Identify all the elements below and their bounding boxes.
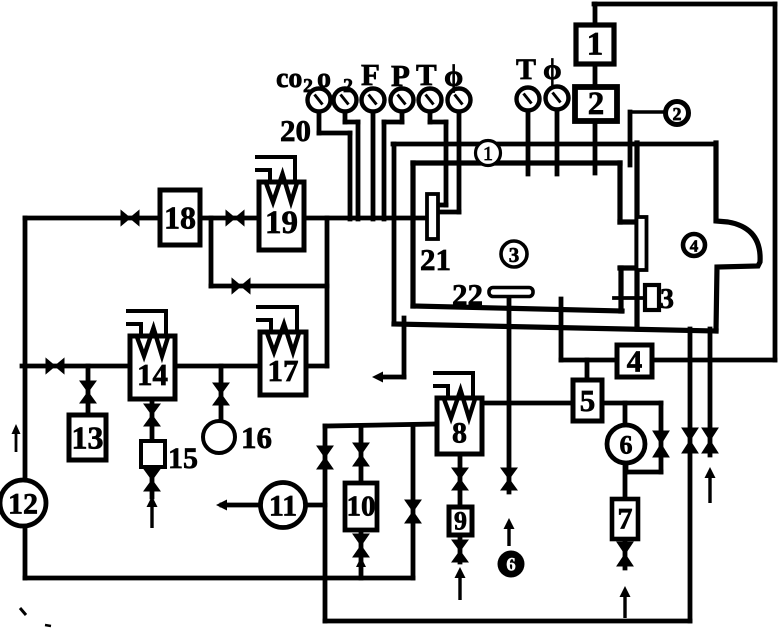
flow arrow up below valve x710 bbox=[705, 467, 716, 503]
wire circle 6 / box 7 string x625 bbox=[623, 403, 628, 568]
gauge phi chamber bbox=[546, 87, 569, 110]
svg-text:10: 10 bbox=[347, 491, 376, 523]
svg-text:14: 14 bbox=[137, 357, 168, 392]
door between chamber 3 and chamber 4 bbox=[637, 217, 647, 270]
valve on heater row left bbox=[46, 359, 64, 374]
wire gauge P drop bbox=[400, 111, 405, 122]
svg-text:ϕ: ϕ bbox=[444, 58, 463, 93]
box 9 bbox=[449, 507, 472, 536]
wire line-1 supply header y144 bbox=[393, 142, 716, 147]
wire box 5 to valve loop bbox=[602, 401, 661, 406]
chamber 3 right wall upper bbox=[617, 163, 622, 222]
svg-text:8: 8 bbox=[452, 417, 467, 450]
wire gauge F drop bbox=[371, 111, 376, 219]
wire box 8 to box 5 line y403 bbox=[482, 401, 573, 406]
wire gauge T drop to tube 21 bbox=[428, 111, 433, 122]
chamber 3 bottom wall bbox=[413, 306, 622, 311]
gauge T main bbox=[419, 89, 442, 112]
svg-text:16: 16 bbox=[241, 420, 272, 455]
gauge T chamber bbox=[517, 88, 540, 111]
pump circle 12 bbox=[0, 480, 46, 526]
flow arrow up on item 22 inlet bbox=[504, 518, 515, 546]
wire gauge CO2 drop bbox=[317, 111, 322, 133]
wire sample line from chamber 3 down to box 4 loop bbox=[559, 299, 564, 360]
wire port stub to box 3 bbox=[614, 296, 645, 300]
svg-text:21: 21 bbox=[420, 242, 451, 277]
svg-text:2: 2 bbox=[588, 86, 605, 122]
wire outer loop right riser x775 bbox=[773, 4, 778, 360]
wire gauge phi drop to tube 21 bbox=[457, 111, 462, 212]
svg-text:3: 3 bbox=[660, 284, 674, 315]
svg-text:ϕ: ϕ bbox=[543, 53, 562, 86]
valve above box 10 bbox=[353, 443, 369, 466]
wire outer enclosure bottom y324-331 bbox=[394, 324, 716, 331]
svg-text:F: F bbox=[361, 57, 380, 92]
box 5 bbox=[573, 380, 602, 421]
wire box 14 drain string x152 bbox=[150, 399, 155, 497]
box 3 port bbox=[645, 285, 659, 310]
wire bottom header y578 bbox=[25, 576, 413, 581]
svg-text:T: T bbox=[416, 57, 437, 92]
svg-text:18: 18 bbox=[164, 200, 196, 236]
svg-text:5: 5 bbox=[580, 383, 596, 418]
flow arrow up below box 9 bbox=[455, 567, 466, 600]
svg-text:6: 6 bbox=[506, 555, 516, 576]
valve below box 10 bbox=[353, 534, 369, 557]
tank circle 16 bbox=[203, 421, 235, 453]
svg-text:3: 3 bbox=[509, 243, 520, 267]
wire box 8 drain / box 9 string x460 bbox=[458, 454, 463, 562]
gauge phi main bbox=[448, 89, 471, 112]
svg-text:T: T bbox=[516, 53, 536, 86]
svg-text:12: 12 bbox=[8, 488, 38, 521]
box 10 bbox=[345, 483, 377, 530]
wire chamber phi gauge probe bbox=[555, 109, 560, 174]
wire chamber 4 drop pipe x690 bbox=[688, 329, 693, 621]
svg-text:17: 17 bbox=[268, 353, 299, 388]
heater box 17 bbox=[256, 307, 306, 395]
valve below box 9 bbox=[452, 540, 468, 562]
wire lowest header y621 bbox=[325, 619, 690, 624]
wire heater row line y366 bbox=[22, 364, 327, 369]
pump circle 11 bbox=[261, 483, 306, 528]
wire humidifier row y426 to box 8 bbox=[325, 424, 437, 426]
valve on riser x325 bbox=[317, 446, 333, 469]
valve on bus left of box 18 bbox=[121, 211, 139, 226]
svg-text:P: P bbox=[391, 58, 410, 93]
valve below box 7 bbox=[617, 542, 633, 566]
node 6 circled dark bbox=[498, 551, 525, 578]
svg-text:4: 4 bbox=[627, 344, 643, 379]
valve below box 8 bbox=[452, 468, 468, 490]
valve below box 15 bbox=[144, 469, 160, 491]
node 3 circled bbox=[501, 241, 527, 267]
chamber 3 left wall x413 bbox=[410, 163, 415, 306]
wire item 22 drop line x509 bbox=[507, 296, 512, 492]
flow arrow out of circle 11 bbox=[216, 500, 258, 511]
valve on item 22 line bbox=[501, 468, 517, 490]
wire sensor 2 probe and lead bbox=[628, 112, 633, 165]
svg-text:22: 22 bbox=[452, 277, 483, 312]
wire valve 16 stem x221 bbox=[219, 366, 224, 421]
svg-text:o: o bbox=[317, 63, 331, 94]
chamber 3 top wall y163 bbox=[413, 160, 620, 165]
gauge P bbox=[391, 89, 414, 112]
svg-text:2: 2 bbox=[303, 75, 313, 97]
svg-text:11: 11 bbox=[269, 490, 297, 523]
node 2 circled bbox=[666, 102, 689, 125]
wire box 5 stem to sample line bbox=[585, 360, 590, 380]
wire box 10 string x361 bbox=[359, 426, 364, 578]
chamber 4 right wall with door opening bbox=[716, 143, 760, 331]
heater box 8 bbox=[433, 373, 482, 454]
flow arrow up below box 10 bbox=[356, 557, 366, 578]
valve below box 14 bbox=[144, 404, 160, 426]
svg-text:co: co bbox=[276, 63, 302, 94]
valve on pipe x690 bbox=[682, 428, 698, 453]
valve bypass of circle 6 bbox=[653, 431, 669, 457]
svg-text:1: 1 bbox=[587, 27, 604, 63]
valve above tank 16 bbox=[213, 383, 229, 405]
wire box 4 to outer right riser y360 bbox=[652, 358, 775, 363]
heater box 14 bbox=[126, 311, 175, 399]
svg-text:1: 1 bbox=[483, 143, 493, 165]
wire gauge O2 drop bbox=[343, 111, 348, 122]
box 1 bbox=[576, 25, 614, 64]
wire chamber T gauge probe bbox=[526, 110, 531, 174]
flow arrow up below box 7 bbox=[620, 586, 631, 618]
wire box 2 probe into chamber bbox=[593, 121, 598, 173]
chamber 4 left wall x637 bbox=[634, 143, 639, 329]
valve on pipe x710 bbox=[702, 428, 718, 453]
flow arrow up below box 15 bbox=[147, 496, 158, 528]
valve on bypass y286 bbox=[232, 279, 250, 294]
heater box 19 bbox=[255, 157, 304, 250]
wire bypass line y286 from bus to riser x327 bbox=[209, 218, 214, 286]
tube 21 sensor well bbox=[427, 194, 438, 239]
wire valve string x413 bbox=[411, 426, 416, 578]
pump circle 6 bbox=[607, 425, 645, 463]
svg-text:20: 20 bbox=[280, 113, 311, 148]
box 7 bbox=[612, 499, 638, 539]
svg-text:2: 2 bbox=[673, 104, 682, 124]
svg-text:9: 9 bbox=[454, 507, 467, 536]
gauge CO2 bbox=[308, 89, 331, 112]
svg-text:4: 4 bbox=[690, 237, 699, 256]
chamber 3 right wall lower bbox=[620, 265, 637, 270]
svg-text:15: 15 bbox=[168, 442, 198, 475]
speck bottom left bbox=[20, 608, 26, 615]
box 15 bbox=[141, 441, 165, 467]
svg-text:19: 19 bbox=[265, 205, 298, 241]
wire chamber drain L-shape with arrow bbox=[402, 318, 407, 377]
wire main recirculation bus y218 from left loop to tube 21 bbox=[25, 216, 427, 221]
valve above box 13 bbox=[80, 381, 96, 403]
svg-text:7: 7 bbox=[618, 503, 633, 536]
wire riser x394 line-1 to outer bottom bbox=[392, 144, 397, 324]
svg-text:6: 6 bbox=[620, 431, 633, 460]
tube 22 sensor bbox=[489, 288, 533, 297]
wire chamber 4 drop pipe x710 bbox=[708, 329, 713, 455]
wire riser x325 down to lowest header bbox=[323, 426, 328, 621]
box 2 bbox=[575, 86, 617, 122]
wire valve above box 13 stem bbox=[86, 366, 91, 415]
box 4 bbox=[617, 344, 652, 379]
wire left riser x25 from bus down to bottom header bbox=[23, 218, 28, 578]
box 13 bbox=[69, 415, 106, 460]
svg-text:2: 2 bbox=[343, 75, 353, 97]
node 4 circled bbox=[683, 234, 705, 256]
wire outer loop top y4 bbox=[594, 2, 775, 7]
valve on x413 string bbox=[405, 500, 421, 523]
box 18 bbox=[160, 190, 200, 245]
wire riser x327 from bus to heater row bbox=[325, 218, 330, 366]
valve on bus left of box 19 bbox=[226, 211, 244, 226]
gauge O2 bbox=[334, 89, 357, 112]
wire circle 11 outlet line bbox=[222, 503, 325, 508]
node 1 circled bbox=[476, 141, 501, 166]
svg-text:13: 13 bbox=[72, 420, 104, 456]
wire box 1 top stem bbox=[593, 4, 598, 25]
flow arrow up on left riser bbox=[12, 424, 21, 452]
wire box 1 to box 2 stem bbox=[593, 64, 598, 87]
gauge F bbox=[362, 89, 385, 112]
